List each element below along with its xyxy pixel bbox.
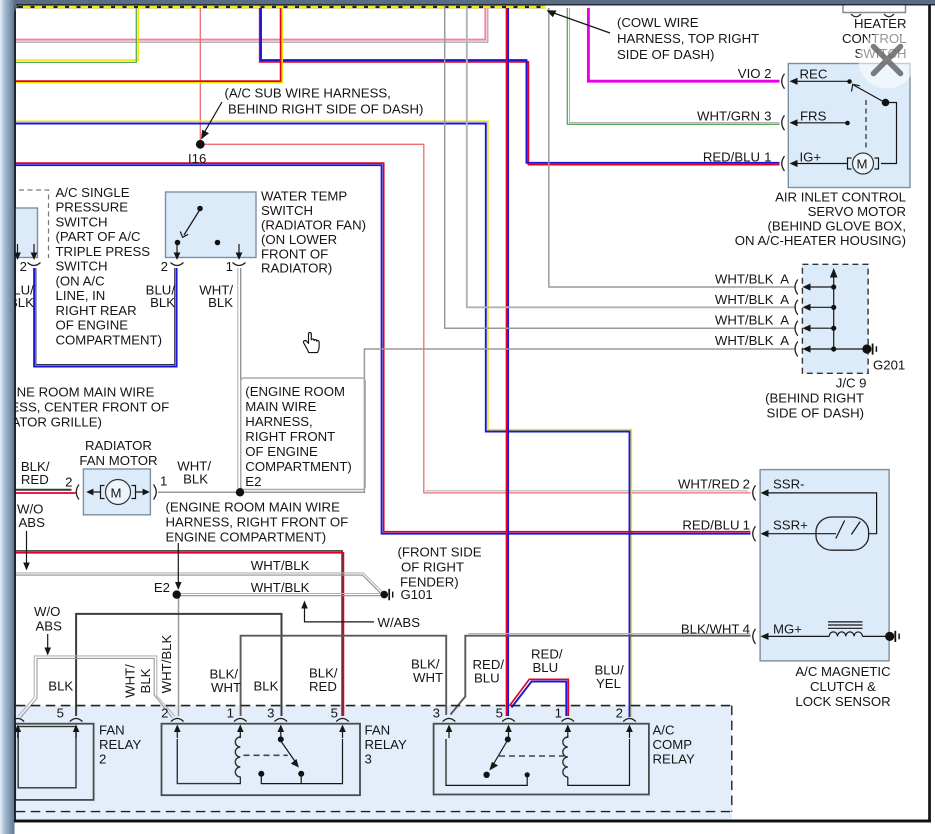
svg-text:A/C: A/C [653,723,675,738]
svg-text:SWITCH: SWITCH [261,203,313,218]
wire WHT/RED: I16 net down to SSR- [199,8,201,144]
svg-text:AIR INLET CONTROL: AIR INLET CONTROL [775,190,906,205]
svg-text:FRONT OF: FRONT OF [261,246,328,261]
svg-text:WHT/GRN: WHT/GRN [697,109,760,124]
window left edge bar [0,0,15,834]
svg-text:A/C MAGNETIC: A/C MAGNETIC [795,664,891,679]
relay K3 coil humps facing left [563,737,568,777]
svg-text:(BEHIND GLOVE BOX,: (BEHIND GLOVE BOX, [767,219,906,234]
svg-text:RADIATOR): RADIATOR) [261,261,332,276]
svg-text:1: 1 [160,474,167,489]
relay K3 internals: left loop [446,739,527,785]
svg-text:E2: E2 [154,580,170,595]
svg-text:SERVO MOTOR: SERVO MOTOR [808,204,906,219]
relay K1 pin arrows [17,728,19,738]
svg-text:SSR+: SSR+ [773,518,808,533]
servo right path to motor [881,103,897,164]
wire RED/BLU net B to IG+ [260,8,780,165]
switch SW1 A/C single pressure switch (cut at left) [12,208,38,258]
wire GRY partner of pink [16,8,488,42]
svg-text:A: A [780,313,789,328]
svg-text:WHT/BLK: WHT/BLK [715,333,774,348]
window top bar [15,0,935,13]
relay K1 FAN RELAY 2 outer box [15,724,93,800]
svg-text:SWITCH: SWITCH [56,259,108,274]
relay K1 inner wire loop [18,727,76,788]
callout arrow to COWL text [551,12,610,33]
svg-text:FAN: FAN [365,723,391,738]
svg-text:RELAY: RELAY [653,752,695,767]
svg-text:WHT/RED: WHT/RED [678,477,740,492]
relay K2 switch: pivot dot, blade arrow, contact dots [278,736,284,742]
servo switch blade + big dot [854,85,885,102]
svg-text:WHT/BLK: WHT/BLK [159,634,174,693]
svg-text:TRIPLE PRESS: TRIPLE PRESS [56,244,151,259]
window chrome overlay: right white strip [931,5,935,834]
wire GRN/YEL pair top-left [16,8,138,60]
svg-text:5: 5 [496,705,503,720]
close button X [859,32,916,89]
junction dot I16 [196,140,205,149]
svg-text:2: 2 [99,752,106,767]
relay K2 internals: loop pin2-coil-pin1 [177,739,236,784]
svg-text:A/C SINGLE: A/C SINGLE [56,185,130,200]
svg-text:COMPARTMENT): COMPARTMENT) [245,459,351,474]
svg-text:WHT/BLK: WHT/BLK [251,580,310,595]
wire BLK relay2-pin5 to relay3-pin3 [76,614,281,716]
svg-text:BLK: BLK [48,679,73,694]
svg-text:BEHIND RIGHT SIDE OF DASH): BEHIND RIGHT SIDE OF DASH) [228,102,423,117]
svg-text:WHT: WHT [211,680,241,695]
svg-text:5: 5 [57,705,64,720]
relay K3 dashed link [499,755,564,757]
svg-text:2: 2 [743,477,750,492]
svg-text:BLK/WHT: BLK/WHT [681,622,740,637]
svg-text:1: 1 [226,259,233,274]
relay K2 pin connectors [171,718,184,721]
svg-text:SWITCH: SWITCH [56,214,108,229]
water temp switch internals: pivot dot, blade, contacts [197,206,203,212]
svg-text:HARNESS, CENTER FRONT OF: HARNESS, CENTER FRONT OF [0,400,169,415]
wire VIO to REC [588,8,779,81]
relay K2 FAN RELAY 3 outer box [162,724,361,796]
J/C9 row4 to ground G201 [834,348,863,350]
heater control switch box fragment top right [843,0,906,13]
wire BLK/RED to fan relay3 pin 5 [16,551,342,716]
lock sensor ellipse + diagonals [816,517,869,550]
svg-text:ENGINE COMPARTMENT): ENGINE COMPARTMENT) [166,530,327,545]
junction dot E2 [173,590,181,598]
dashed bracket for pressure switch label [19,190,49,258]
svg-text:BLK: BLK [254,679,279,694]
svg-text:RIGHT FRONT: RIGHT FRONT [245,429,335,444]
svg-text:FAN MOTOR: FAN MOTOR [79,453,157,468]
svg-text:J/C 9: J/C 9 [836,376,867,391]
servo pin connectors + arrows [782,74,785,89]
relay K3 A/C COMP RELAY outer box [434,724,649,795]
svg-text:M: M [111,486,122,501]
window chrome overlay: bottom white strip [15,822,935,834]
diagram frame bottom [14,820,931,823]
svg-text:FAN: FAN [99,723,125,738]
mouse cursor (hand) [303,333,319,353]
pressure switch pin arrows + connectors [33,244,35,256]
svg-text:WHT/BLK: WHT/BLK [715,292,774,307]
ground G101 dot + bars [380,591,388,599]
arrow W/O ABS upper [26,531,28,564]
svg-text:MAIN WIRE: MAIN WIRE [245,399,316,414]
ground G201 dot + bars [862,344,871,353]
svg-text:RED: RED [309,679,337,694]
svg-text:MG+: MG+ [773,622,802,637]
svg-text:RED: RED [21,472,49,487]
ground dot at SSR box edge [885,632,894,641]
wire RED/YEL pair to left edge [16,8,281,81]
servo dashed actuator line [865,100,867,151]
diagram frame left [14,5,16,822]
svg-text:(ENGINE ROOM: (ENGINE ROOM [245,384,345,399]
svg-text:WATER TEMP: WATER TEMP [261,189,347,204]
svg-text:1: 1 [227,705,234,720]
svg-text:WHT/BLK: WHT/BLK [715,272,774,287]
wire WHT/BLK riser to J/C9 row2 [467,6,795,307]
wire WHT/BLK E2 down to relay3 pin 2 [178,595,180,716]
svg-text:FRS: FRS [800,108,827,123]
wire WHT/BLK riser to J/C9 row1 [549,8,795,287]
svg-text:1: 1 [743,518,750,533]
wire WHT/BLK motor junction to J/C9 row4 [158,349,795,492]
wire BLK/RED into motor pin 2 [16,489,72,491]
J/C9 bus with top arrow [833,275,835,349]
relay K1 pin connectors [12,718,25,721]
svg-text:2: 2 [616,705,623,720]
svg-text:ABS: ABS [19,515,46,530]
svg-text:RED/BLU: RED/BLU [703,150,760,165]
svg-text:1: 1 [555,705,562,720]
svg-text:(ON LOWER: (ON LOWER [261,232,337,247]
J/C 9 dashed junction box [802,264,868,373]
J/C9 row stub + dot [806,286,834,288]
svg-text:(FRONT SIDE: (FRONT SIDE [398,545,482,560]
SSR box: A/C magnetic clutch & lock sensor [760,470,889,661]
svg-text:W/ABS: W/ABS [378,615,421,630]
wire RED/BLU net C top to ACcomp pin 5 [507,8,509,716]
svg-text:(BEHIND RIGHT: (BEHIND RIGHT [765,391,864,406]
svg-text:IG+: IG+ [800,150,822,165]
svg-text:A: A [780,272,789,287]
label W/ABS + arrow [305,607,375,622]
svg-text:BLK: BLK [208,295,233,310]
svg-text:BLK: BLK [150,295,175,310]
svg-text:RED/BLU: RED/BLU [682,518,739,533]
svg-text:3: 3 [267,705,274,720]
wire BLU/YEL pair to A/C comp relay pin 2 [16,121,632,717]
svg-text:SIDE OF DASH): SIDE OF DASH) [617,47,714,62]
motor symbol [106,480,131,505]
svg-text:YEL: YEL [596,676,621,691]
top bar redraw [15,0,935,13]
svg-text:WHT: WHT [413,670,443,685]
svg-text:HARNESS, RIGHT FRONT OF: HARNESS, RIGHT FRONT OF [166,515,349,530]
svg-text:1: 1 [764,150,771,165]
svg-text:(A/C SUB WIRE HARNESS,: (A/C SUB WIRE HARNESS, [225,86,391,101]
svg-text:ABS: ABS [36,619,63,634]
svg-text:4: 4 [743,622,750,637]
svg-text:2: 2 [65,475,72,490]
wire WHT/GRN pair to FRS [570,8,780,123]
water temp switch box [166,192,257,258]
svg-text:SIDE OF DASH): SIDE OF DASH) [767,406,864,421]
svg-text:W/O: W/O [34,604,60,619]
svg-text:2: 2 [764,66,771,81]
svg-text:HARNESS, TOP RIGHT: HARNESS, TOP RIGHT [617,31,759,46]
svg-text:HARNESS,: HARNESS, [245,414,312,429]
svg-text:BLK: BLK [138,668,153,693]
svg-text:2: 2 [161,259,168,274]
svg-text:2: 2 [20,259,27,274]
svg-text:HEATER: HEATER [854,16,907,31]
svg-text:COMP: COMP [653,737,693,752]
servo REC contact wire + dot [801,80,848,82]
svg-text:BLU: BLU [533,660,559,675]
relay K3 pin arrows + connectors [448,728,450,738]
svg-text:RADIATOR: RADIATOR [85,438,152,453]
wire: highlighted selected wire (yellow/black dashed) along top [16,6,546,9]
relay K2 coil (4 humps facing left) [235,737,240,777]
svg-text:PRESSURE: PRESSURE [56,200,129,215]
air inlet servo motor box [788,64,910,188]
SSR- internal wire loop [764,493,877,534]
relay K2 dashed link [244,754,288,756]
J/C9 row stub + dot [806,327,834,329]
svg-text:A: A [780,292,789,307]
wire BLU/BLK U-loop [36,268,175,365]
svg-text:3: 3 [433,705,440,720]
svg-text:OF ENGINE: OF ENGINE [56,318,129,333]
svg-text:(PART OF A/C: (PART OF A/C [56,229,141,244]
junction dot motor/water-temp/JC9 [236,488,244,496]
arrow E2 from harness box [177,543,179,583]
water temp pin connectors [171,263,184,266]
svg-text:VIO: VIO [738,66,761,81]
wire BLK/WHT relay3-pin1 to ACcomp pin3 [241,636,447,716]
J/C9 row stub + dot [806,306,834,308]
radiator fan motor box [83,469,150,515]
svg-text:LINE, IN: LINE, IN [56,288,106,303]
svg-text:LOCK SENSOR: LOCK SENSOR [795,694,890,709]
svg-text:RIGHT REAR: RIGHT REAR [56,303,137,318]
MG+ internal wire + coil [764,635,829,637]
svg-text:G101: G101 [401,587,433,602]
servo FRS contact [801,122,846,124]
svg-text:3: 3 [365,752,372,767]
wire WHT/BLK water temp pin1 down to junction [237,268,239,491]
bottom harness dashed box fill [16,706,732,820]
SSR+ internal wire [764,533,836,535]
relay K2 pin arrows [176,728,178,738]
wire BLK white-cased W/O ABS [18,656,175,716]
svg-text:COMPARTMENT): COMPARTMENT) [56,332,162,347]
servo motor symbol [853,153,874,174]
svg-text:G201: G201 [873,358,905,373]
svg-text:REC: REC [800,67,828,82]
wire WHT/BLK wire2 E2 to G101 [177,593,385,595]
svg-text:(ENGINE ROOM MAIN WIRE: (ENGINE ROOM MAIN WIRE [166,500,341,515]
wire WHT/BLK white wire1 to G101 [16,573,382,592]
wire RED/BLU net A to SSR+ [16,163,751,532]
wire BLK/WHT MG+ net [451,636,751,715]
relay K3 switch [505,736,511,742]
svg-text:CLUTCH &: CLUTCH & [810,679,876,694]
diagram frame redraw [14,5,16,822]
svg-text:3: 3 [764,109,771,124]
svg-text:A: A [780,333,789,348]
svg-text:(RADIATOR FAN): (RADIATOR FAN) [261,218,366,233]
motor pin connectors ( ) [76,485,79,500]
svg-text:(COWL WIRE: (COWL WIRE [617,15,699,30]
svg-text:(ON A/C: (ON A/C [56,273,106,288]
wire WHT/BLK riser to J/C9 row3 [445,6,795,328]
svg-text:WHT/BLK: WHT/BLK [251,558,310,573]
svg-text:BLU: BLU [474,671,500,686]
svg-text:OF RIGHT: OF RIGHT [401,560,464,575]
callout arrow to I16 [204,102,222,133]
svg-text:RELAY: RELAY [365,737,407,752]
harness dashed border top/right/bottom [16,705,732,707]
window chrome overlay: left bar redraw [0,0,15,834]
svg-text:RELAY: RELAY [99,737,141,752]
svg-text:I16: I16 [188,151,206,166]
svg-text:(ENGINE ROOM MAIN WIRE: (ENGINE ROOM MAIN WIRE [0,385,155,400]
J/C9 row stub + dot [806,348,834,350]
svg-text:WHT/: WHT/ [123,664,138,698]
wire PNK horizontal turning up [16,8,486,40]
svg-text:ON A/C-HEATER HOUSING): ON A/C-HEATER HOUSING) [735,233,906,248]
svg-text:SSR-: SSR- [773,477,805,492]
harness callout rounded box (ENGINE ROOM...E2) [241,378,365,490]
svg-text:5: 5 [331,705,338,720]
svg-text:WHT/BLK: WHT/BLK [715,313,774,328]
svg-text:E2: E2 [245,474,261,489]
svg-text:M: M [857,157,868,172]
svg-text:OF ENGINE: OF ENGINE [245,444,318,459]
SSR pin connectors + arrows [753,485,756,500]
water temp pin arrows down [176,244,178,256]
svg-text:BLK: BLK [183,472,208,487]
svg-text:2: 2 [161,705,168,720]
wire RED/BLU branch pin5 to pin1 [512,682,567,717]
diagram frame right [928,5,931,822]
